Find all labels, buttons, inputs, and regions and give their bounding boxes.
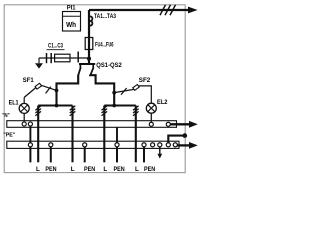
current transformers TA1...TA3 bbox=[89, 16, 92, 25]
fuses FU4...FU6 bbox=[85, 38, 93, 50]
wire: right leg from QS bbox=[90, 75, 114, 106]
wire: right T-split bbox=[104, 104, 136, 106]
wire: main trunk bbox=[88, 10, 90, 64]
svg-text:TA1...TA3: TA1...TA3 bbox=[94, 13, 116, 20]
wire: PEN bond to enclosure bbox=[168, 136, 185, 143]
node: SF1 tap bbox=[55, 89, 59, 93]
svg-text:PEN: PEN bbox=[144, 166, 156, 173]
node: SF2 tap bbox=[112, 91, 116, 95]
svg-text:C1...C3: C1...C3 bbox=[48, 43, 63, 50]
svg-text:QS1-QS2: QS1-QS2 bbox=[96, 62, 122, 69]
svg-text:PI1: PI1 bbox=[67, 4, 76, 11]
wire: lamp EL1 to terminal bbox=[23, 113, 25, 122]
svg-text:EL1: EL1 bbox=[9, 100, 20, 106]
wire: PEN riser bbox=[116, 127, 118, 143]
terminal strip box bbox=[7, 141, 179, 148]
svg-text:PEN: PEN bbox=[45, 166, 57, 173]
outgoing line arrow (lower) bbox=[177, 144, 189, 146]
earth down arrow bbox=[159, 147, 161, 155]
svg-text:L: L bbox=[103, 166, 107, 173]
svg-text:PEN: PEN bbox=[114, 166, 126, 173]
wire: N riser bbox=[29, 126, 31, 143]
outgoing feeder stubs bbox=[29, 147, 31, 163]
wire: left leg from QS bbox=[57, 75, 79, 106]
wire: feeder leg 1 bbox=[37, 106, 39, 163]
enclosure frame bbox=[4, 5, 185, 173]
svg-text:Wh: Wh bbox=[66, 20, 76, 29]
svg-text:L: L bbox=[71, 166, 75, 173]
svg-text:SF2: SF2 bbox=[139, 77, 151, 84]
svg-text:"PE": "PE" bbox=[3, 132, 15, 138]
svg-text:L: L bbox=[135, 166, 139, 173]
outgoing line arrow (upper) bbox=[170, 123, 189, 125]
wire: feeder leg 4 bbox=[135, 106, 137, 163]
wire: feeder leg 2 bbox=[71, 106, 73, 163]
wire: feeder leg 3 bbox=[103, 106, 105, 163]
svg-text:L: L bbox=[36, 166, 40, 173]
capacitors C1...C3 bbox=[46, 53, 48, 63]
meter PI1 (Wh) bbox=[63, 12, 81, 32]
wire: capacitor branch bbox=[39, 57, 89, 59]
3-conductor slashes on supply line bbox=[160, 5, 166, 15]
node: trunk / capacitor branch junction bbox=[87, 57, 91, 61]
svg-text:SF1: SF1 bbox=[23, 77, 34, 84]
svg-text:EL2: EL2 bbox=[157, 100, 168, 106]
wire: lamp EL2 to terminal bbox=[150, 113, 152, 122]
svg-text:PEN: PEN bbox=[84, 166, 96, 173]
incoming supply line with arrow bbox=[89, 9, 189, 11]
wire: left T-split bbox=[38, 104, 72, 106]
apparatus box bbox=[7, 121, 177, 128]
terminals bbox=[28, 143, 32, 147]
svg-text:FU4...FU6: FU4...FU6 bbox=[95, 41, 114, 48]
ground bbox=[38, 58, 40, 63]
svg-text:"N": "N" bbox=[2, 113, 10, 119]
